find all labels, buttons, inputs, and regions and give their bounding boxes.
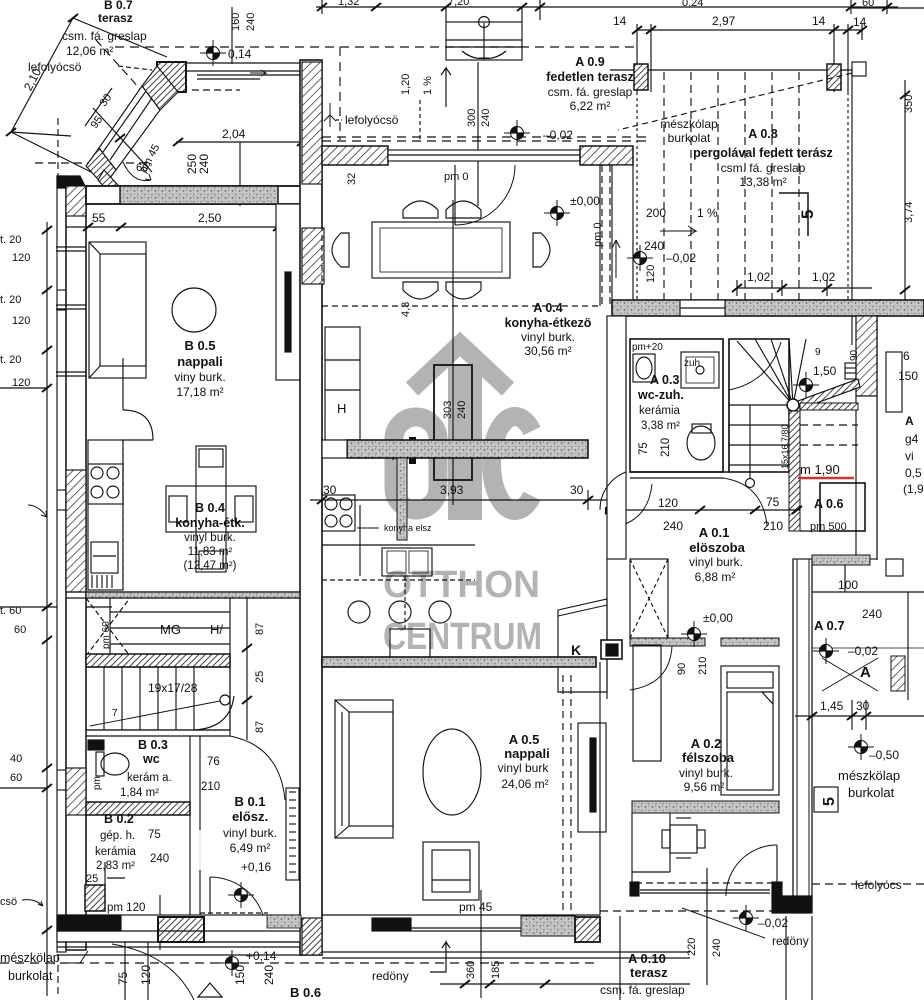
svg-text:240: 240 [711, 939, 723, 957]
watermark OTTHON CENTRUM [383, 564, 542, 658]
svg-text:viny burk.: viny burk. [174, 370, 225, 384]
svg-text:mészkólap: mészkólap [660, 117, 718, 131]
A0.8 labels [660, 117, 833, 189]
svg-text:200: 200 [646, 206, 666, 220]
svg-text:lefolyócsö: lefolyócsö [345, 113, 399, 127]
svg-text:A 0.1: A 0.1 [699, 525, 730, 540]
right edge partial texts [898, 349, 924, 496]
svg-text:vinyl burk.: vinyl burk. [521, 330, 575, 344]
svg-text:terasz: terasz [98, 11, 133, 25]
svg-text:240: 240 [644, 239, 664, 253]
svg-text:120: 120 [12, 315, 30, 327]
félszoba bottom wall [630, 882, 812, 913]
svg-text:1 %: 1 % [697, 206, 718, 220]
svg-text:A 0.9: A 0.9 [575, 55, 604, 69]
félszoba mid wall band [632, 801, 779, 813]
svg-text:240: 240 [480, 109, 492, 127]
svg-text:csm. fá. greslap: csm. fá. greslap [62, 29, 147, 43]
pergola dimension line 14 2,97 14 14 [632, 24, 867, 92]
svg-text:kerámia: kerámia [639, 405, 681, 417]
svg-text:7: 7 [112, 708, 118, 719]
svg-text:konyha-étkezö: konyha-étkezö [505, 316, 592, 330]
A0.6 closet [800, 425, 865, 531]
A unit top wall [322, 146, 633, 306]
top wall of A0.5 [322, 657, 596, 667]
svg-text:60: 60 [10, 772, 22, 784]
sofa A0.5 [335, 700, 393, 838]
B0.5 top wall band [86, 186, 305, 204]
top wall strip right of corner block (A0.9 edge) [186, 63, 316, 79]
svg-text:+0,14: +0,14 [246, 949, 277, 963]
svg-text:1,02: 1,02 [812, 270, 836, 284]
svg-text:75: 75 [148, 829, 161, 841]
A0.5 bottom wall [322, 915, 690, 958]
svg-text:40: 40 [10, 753, 22, 765]
svg-text:pergolával fedett terász: pergolával fedett terász [693, 146, 833, 160]
A kitchen tall cabinet column [325, 327, 360, 440]
svg-text:pm 45: pm 45 [459, 900, 493, 914]
svg-text:pm+20: pm+20 [632, 342, 663, 353]
svg-text:11,83 m²: 11,83 m² [188, 546, 233, 558]
dim 55 2,50 41 [66, 223, 305, 231]
svg-text:1 %: 1 % [422, 76, 434, 95]
svg-text:A 0.5: A 0.5 [509, 732, 540, 747]
A0.5 room edges [322, 662, 600, 915]
A0.9 labels [546, 55, 634, 113]
svg-text:300: 300 [466, 109, 478, 127]
svg-text:2,50: 2,50 [198, 211, 222, 225]
svg-text:OTTHON: OTTHON [383, 564, 540, 606]
svg-text:0,24: 0,24 [682, 0, 703, 9]
B0.2 gép h. room [85, 815, 105, 915]
svg-text:t. 20: t. 20 [0, 234, 21, 246]
svg-text:3,93: 3,93 [440, 483, 464, 497]
svg-text:terasz: terasz [630, 965, 668, 980]
svg-text:240: 240 [197, 154, 211, 174]
svg-text:15x16,7/80: 15x16,7/80 [780, 424, 790, 469]
svg-text:120: 120 [12, 377, 30, 389]
bed [721, 666, 779, 795]
svg-text:30,56 m²: 30,56 m² [524, 344, 571, 358]
section shaft rect [409, 200, 472, 505]
svg-text:A: A [905, 414, 914, 428]
oval table [423, 729, 481, 815]
top speckled wall band of right wing [612, 300, 924, 316]
A0.4 door arc top [455, 165, 515, 225]
kitchen dashed boundary [322, 305, 600, 307]
svg-text:burkolat: burkolat [668, 131, 711, 145]
svg-text:A 0.8: A 0.8 [748, 127, 777, 141]
svg-text:m 1,90: m 1,90 [800, 462, 840, 477]
svg-text:A: A [860, 664, 871, 681]
svg-text:24,06 m²: 24,06 m² [501, 777, 548, 791]
svg-text:t. 20: t. 20 [0, 294, 21, 306]
main dashed line above A wall [322, 136, 648, 138]
svg-text:360: 360 [465, 961, 477, 979]
B0.5 round table [172, 288, 216, 332]
svg-text:9,56 m²: 9,56 m² [684, 780, 725, 794]
svg-text:B 0.2: B 0.2 [104, 812, 134, 826]
svg-text:mészkölap: mészkölap [838, 768, 900, 783]
svg-text:gép. h.: gép. h. [100, 830, 135, 842]
terrace B0.7 labels [21, 0, 147, 93]
svg-text:1,50: 1,50 [813, 364, 837, 378]
plot top dimension line [316, 0, 898, 20]
corridor west wall [607, 316, 626, 559]
radiator B0.1 [286, 788, 299, 880]
svg-text:90: 90 [676, 663, 688, 675]
diagonal window band [99, 86, 160, 170]
svg-text:–0,02: –0,02 [848, 644, 878, 658]
svg-text:210: 210 [697, 657, 709, 675]
svg-text:240: 240 [663, 519, 683, 533]
svg-text:120: 120 [658, 496, 678, 510]
A0.4 dining table [332, 201, 550, 299]
svg-text:A 0.3: A 0.3 [650, 373, 679, 387]
svg-text:A 0.4: A 0.4 [533, 301, 562, 315]
svg-text:30: 30 [570, 483, 584, 497]
svg-text:redöny: redöny [772, 934, 809, 948]
mészkölap burkolat label bottom-left [0, 951, 60, 983]
svg-text:30: 30 [856, 699, 870, 713]
door arc B0.1 [209, 877, 211, 914]
svg-text:B 0.6: B 0.6 [290, 985, 321, 1000]
A0.5/A0.1 divider wall x795 [793, 559, 812, 913]
svg-text:2,83 m²: 2,83 m² [96, 860, 135, 872]
B mid wall under kitchen [66, 592, 300, 598]
bench at top [441, 3, 527, 60]
svg-text:B 0.5: B 0.5 [184, 338, 215, 353]
A0.5 labels [498, 732, 550, 791]
svg-text:t. 60: t. 60 [0, 605, 21, 617]
svg-text:1,32: 1,32 [338, 0, 359, 8]
stair labels [780, 347, 860, 477]
svg-text:–0,02: –0,02 [758, 916, 788, 930]
party wall B/A [300, 60, 324, 955]
dim line along diagonal [93, 108, 152, 172]
svg-text:120: 120 [645, 265, 657, 283]
left margin labels [0, 234, 30, 908]
wc-zuh room A0.3 [614, 339, 729, 478]
A0.4 labels [505, 301, 592, 358]
svg-text:wc: wc [142, 752, 160, 766]
svg-text:12,06 m²: 12,06 m² [66, 44, 113, 58]
svg-text:pm 0: pm 0 [444, 171, 468, 183]
svg-text:3,38 m²: 3,38 m² [641, 420, 680, 432]
svg-text:120: 120 [139, 965, 153, 985]
svg-text:14: 14 [613, 14, 627, 28]
svg-text:kerám a.: kerám a. [127, 772, 172, 784]
svg-text:burkolat: burkolat [848, 785, 895, 800]
svg-text:A 0.10: A 0.10 [628, 951, 666, 966]
svg-text:240: 240 [245, 13, 257, 31]
dim 87/25/87 right of stairs [242, 598, 252, 740]
svg-text:+0,16: +0,16 [241, 860, 272, 874]
svg-text:–0,02: –0,02 [666, 251, 696, 265]
diagonal hatched wall upper [142, 66, 178, 110]
svg-text:csm. fá. greslap: csm. fá. greslap [600, 983, 685, 997]
svg-text:pm: pm [92, 776, 103, 790]
svg-text:2,04: 2,04 [222, 127, 246, 141]
MG stair upper [86, 598, 230, 736]
A0.3 labels [632, 342, 700, 457]
right wing outer east wall [856, 316, 902, 560]
B0.5 room walls [56, 204, 301, 592]
svg-text:75: 75 [116, 971, 130, 985]
B0.1 elősz labels [223, 794, 277, 874]
svg-text:redöny: redöny [372, 969, 409, 983]
svg-text:lefolyócs: lefolyócs [855, 878, 902, 892]
svg-text:A 0.7: A 0.7 [814, 618, 845, 633]
dim line 1,45 30 [795, 700, 924, 730]
svg-text:B 0.3: B 0.3 [138, 738, 168, 752]
svg-text:60: 60 [14, 624, 26, 636]
leader arrow csö [22, 900, 43, 906]
svg-text:210: 210 [201, 781, 220, 793]
A0.9 dashed boundary [115, 46, 637, 48]
A kitchen lower: stove + counter [322, 495, 475, 659]
window right A0.5 [578, 723, 606, 832]
svg-text:25: 25 [254, 671, 266, 683]
watermark OC house logo [394, 344, 532, 520]
svg-text:B 0.4: B 0.4 [195, 501, 225, 515]
svg-text:185: 185 [490, 961, 502, 979]
svg-text:75: 75 [638, 442, 650, 455]
bottom dashed line with 0,14 [0, 962, 600, 964]
wall under stair / A0.6 divider [789, 411, 800, 531]
B0.5 labels [174, 338, 225, 399]
svg-text:g4: g4 [905, 432, 919, 446]
félszoba labels [679, 736, 735, 794]
félszoba niche [669, 813, 671, 872]
A0.7 outside area [812, 555, 924, 700]
wardrobe [633, 645, 661, 761]
svg-text:87: 87 [254, 623, 266, 635]
svg-text:4,3: 4,3 [400, 302, 412, 317]
small desk [662, 818, 705, 858]
svg-text:konyha elsz: konyha elsz [384, 523, 432, 533]
svg-text:14: 14 [853, 15, 867, 29]
svg-text:1,02: 1,02 [747, 270, 771, 284]
svg-text:(12,47 m²): (12,47 m²) [183, 560, 236, 572]
svg-text:vi: vi [905, 449, 914, 463]
svg-text:vinyl burk.: vinyl burk. [679, 766, 733, 780]
wall under kitchen (A0.4/lower) [322, 440, 588, 540]
svg-text:A 0.2: A 0.2 [691, 736, 722, 751]
window dim 2,04 [173, 138, 307, 206]
svg-text:220: 220 [686, 938, 698, 956]
svg-text:6,88 m²: 6,88 m² [695, 570, 736, 584]
hatched band mid stairs [86, 654, 230, 667]
svg-text:félszoba: félszoba [682, 750, 735, 765]
svg-text:zuh: zuh [684, 358, 700, 369]
corner column block [157, 62, 186, 92]
svg-text:vinyl burk: vinyl burk [498, 761, 550, 775]
svg-text:csö: csö [0, 896, 17, 908]
svg-text:75: 75 [766, 495, 780, 509]
svg-text:A 0.6: A 0.6 [814, 497, 843, 511]
svg-text:1,20: 1,20 [400, 74, 412, 95]
diagonal small labels [89, 92, 163, 175]
svg-text:240: 240 [862, 607, 882, 621]
svg-text:fedetlen terasz: fedetlen terasz [546, 70, 634, 84]
sloped stringer to wall [798, 379, 858, 401]
svg-text:240: 240 [150, 853, 169, 865]
stairwell [729, 339, 860, 531]
svg-text:kerámia: kerámia [95, 846, 137, 858]
svg-text:6,22 m²: 6,22 m² [570, 99, 611, 113]
svg-text:±0,00: ±0,00 [703, 611, 733, 625]
svg-text:25: 25 [86, 873, 98, 885]
svg-text:pm 60: pm 60 [101, 621, 112, 649]
svg-text:±0,00: ±0,00 [570, 194, 600, 208]
svg-text:nappali: nappali [177, 354, 223, 369]
svg-text:1,45: 1,45 [820, 699, 844, 713]
B0.4 labels [175, 501, 244, 572]
svg-text:burkolat: burkolat [8, 969, 53, 983]
svg-text:60°: 60° [136, 162, 153, 174]
svg-text:1,84 m²: 1,84 m² [120, 787, 159, 799]
B0.3 wc room [86, 730, 230, 915]
B kitchen counter [88, 358, 153, 590]
svg-text:wc-zuh.: wc-zuh. [637, 388, 684, 402]
chimney K bottom [558, 559, 622, 699]
svg-text:32: 32 [346, 173, 358, 185]
svg-text:55: 55 [92, 211, 106, 225]
dim line 120 [605, 506, 802, 514]
svg-text:210: 210 [660, 438, 672, 457]
armchair [423, 842, 479, 900]
svg-text:–0,02: –0,02 [543, 128, 573, 142]
leader arrow left upper [28, 505, 47, 517]
svg-text:–0,50: –0,50 [869, 748, 899, 762]
diagonal hatched wall lower [86, 148, 116, 186]
svg-text:240: 240 [262, 965, 276, 985]
stairs 19x17/28 [86, 667, 234, 730]
right 3,74 dim [852, 8, 924, 300]
svg-text:90: 90 [849, 349, 860, 361]
svg-text:K: K [571, 642, 581, 658]
svg-text:160: 160 [230, 13, 242, 31]
svg-text:17,18 m²: 17,18 m² [176, 385, 223, 399]
svg-text:6,49 m²: 6,49 m² [230, 841, 271, 855]
svg-text:5: 5 [821, 797, 838, 806]
svg-text:87: 87 [254, 721, 266, 733]
B unit left outer wall [57, 176, 86, 952]
svg-text:B 0.1: B 0.1 [234, 794, 265, 809]
svg-text:150: 150 [233, 965, 247, 985]
svg-text:14: 14 [812, 14, 826, 28]
svg-text:150: 150 [898, 369, 918, 383]
dim 30 3,93 30 [310, 490, 610, 510]
B0.5 sofa [89, 242, 146, 378]
elöszoba labels [689, 525, 746, 584]
svg-text:vinyl burk.: vinyl burk. [184, 532, 236, 544]
svg-text:H/: H/ [210, 622, 223, 637]
terrace B 0.7 (diagonal) [6, 14, 167, 173]
svg-text:19x17/28: 19x17/28 [148, 681, 198, 695]
door arc wc->elöszoba [608, 484, 652, 528]
diagonal entry wall NW of B unit [85, 62, 186, 204]
svg-text:76: 76 [207, 756, 220, 768]
B bottom wall [57, 915, 305, 955]
svg-text:elősz.: elősz. [232, 809, 268, 824]
svg-text:nappali: nappali [504, 746, 550, 761]
svg-text:100: 100 [838, 578, 858, 592]
svg-text:t. 20: t. 20 [0, 354, 21, 366]
svg-text:9: 9 [815, 347, 821, 358]
B0.4 dining table cross [166, 446, 256, 572]
svg-text:303: 303 [442, 401, 454, 419]
shaft with X (elöszoba) [630, 559, 668, 638]
svg-text:(1,9: (1,9 [903, 482, 924, 496]
svg-text:konyha-étk.: konyha-étk. [175, 516, 244, 530]
svg-text:csm. fá. greslap: csm. fá. greslap [721, 161, 806, 175]
door arc félszoba [776, 845, 778, 890]
svg-text:csm. fá. greslap: csm. fá. greslap [548, 85, 633, 99]
svg-text:vinyl burk.: vinyl burk. [689, 555, 743, 569]
svg-text:pm 120: pm 120 [107, 902, 145, 914]
svg-text:pm 500: pm 500 [810, 521, 847, 533]
level marker +0,14 top [200, 40, 226, 66]
svg-text:0,5: 0,5 [905, 466, 922, 480]
svg-text:13,38 m²: 13,38 m² [739, 175, 786, 189]
svg-text:240: 240 [456, 401, 468, 419]
svg-text:2,97: 2,97 [712, 14, 736, 28]
svg-text:120: 120 [12, 252, 30, 264]
5 bracket [779, 193, 808, 236]
left margin dimension chain [0, 118, 112, 996]
A0.10 terasz [600, 884, 924, 1000]
svg-text:vinyl burk.: vinyl burk. [223, 826, 277, 840]
elöszoba bottom wall + door [630, 638, 779, 690]
svg-text:H: H [337, 401, 346, 416]
svg-text:CENTRUM: CENTRUM [383, 616, 542, 658]
svg-text:6: 6 [903, 349, 910, 363]
svg-text:elöszoba: elöszoba [689, 540, 745, 555]
5 box [814, 787, 838, 812]
1,02 dim line [732, 280, 872, 296]
svg-text:MG: MG [160, 622, 181, 637]
